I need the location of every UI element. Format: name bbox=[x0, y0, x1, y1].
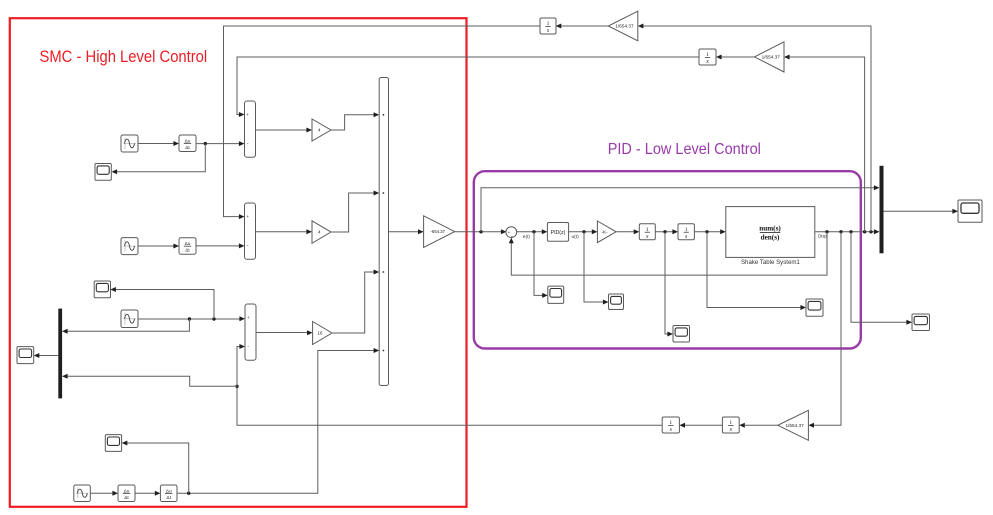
gain Gain4a (4) bbox=[312, 119, 331, 141]
transfer function block Shake Table System1 bbox=[726, 207, 828, 258]
wire FbGainB to IntegratorB bbox=[722, 56, 755, 58]
wire reference branch to MuxOut in1 bbox=[481, 188, 874, 232]
wire MuxOut to ScopeMain bbox=[884, 210, 953, 212]
svg-text:e(t): e(t) bbox=[523, 234, 531, 240]
PID region frame (purple rounded rectangle) bbox=[474, 171, 861, 348]
integrator block IntegratorB (1/s) bbox=[699, 49, 716, 65]
wire feedback C from junction down and left bbox=[814, 232, 841, 425]
wire junction to Scope5 bbox=[851, 232, 907, 322]
integrator block IntegratorC (1/s) bbox=[722, 417, 739, 433]
svg-text:Disp: Disp bbox=[818, 233, 827, 238]
svg-text:1/654.37: 1/654.37 bbox=[762, 54, 781, 59]
wire junction to Mux2 in1 bbox=[67, 319, 189, 331]
wire Derivative2 to Sum2 in2 bbox=[196, 245, 239, 247]
scope ScopeU bbox=[609, 294, 624, 310]
svg-text:u(t): u(t) bbox=[572, 234, 580, 240]
sum junction SumPID bbox=[506, 227, 517, 240]
gain FbGainB (1/654.37) bbox=[755, 42, 785, 72]
scope ScopeE bbox=[548, 286, 564, 303]
wire Mux1 to Gain654 bbox=[389, 231, 419, 233]
sine wave source Sine3 bbox=[121, 310, 138, 328]
wire SumPID to PID (junction) bbox=[517, 231, 542, 233]
svg-text:1/654.37: 1/654.37 bbox=[615, 24, 634, 29]
wire Mux2 to ScopeL bbox=[39, 355, 58, 357]
wire Sine3 to Sum3 in1 (junctions) bbox=[138, 318, 240, 320]
svg-text:den(s): den(s) bbox=[761, 233, 780, 241]
wire FbGainC to IntegratorC bbox=[745, 424, 778, 426]
wire PID feedback to SumPID minus bbox=[511, 232, 827, 275]
svg-text:16: 16 bbox=[317, 331, 323, 336]
integrator block IntegratorA (1/s) bbox=[540, 18, 556, 34]
mux MuxOut (output bus bar) bbox=[880, 166, 884, 254]
wire junction to ScopeV bbox=[665, 232, 668, 334]
sine wave source Sine2 bbox=[121, 238, 138, 255]
wire Gain4b to Mux in2 bbox=[331, 193, 374, 232]
derivative block Derivative2 bbox=[179, 238, 196, 255]
svg-text:Δt: Δt bbox=[124, 495, 129, 501]
wire feedback B from junction up and left bbox=[790, 57, 865, 232]
wire Sum2 to Gain4b bbox=[256, 231, 308, 233]
wire Sine4 to Derivative3 bbox=[90, 492, 112, 494]
wire Gain654 to SumPID (junction at branch to mux) bbox=[455, 231, 502, 233]
mux Mux1 (4-input) bbox=[379, 78, 388, 386]
svg-text:1/654.37: 1/654.37 bbox=[786, 423, 805, 428]
svg-text:Shake Table System1: Shake Table System1 bbox=[741, 259, 800, 266]
wire Plant to MuxOut in2 (junctions) bbox=[815, 231, 874, 233]
svg-text:-K-: -K- bbox=[601, 229, 608, 234]
svg-text:Δt: Δt bbox=[185, 145, 190, 151]
sine wave source Sine4 bbox=[74, 485, 91, 502]
integrator block Integrator1 (1/s) bbox=[639, 224, 655, 240]
scope ScopeMain bbox=[958, 200, 982, 222]
scope ScopeX bbox=[806, 299, 823, 316]
wire PID to GainK (junction) bbox=[569, 231, 592, 233]
svg-text:PID(z): PID(z) bbox=[551, 230, 566, 236]
svg-text:Δt: Δt bbox=[185, 248, 190, 254]
PID controller block PID(z) bbox=[547, 223, 568, 242]
integrator block IntegratorD (1/s) bbox=[662, 417, 679, 433]
wire Sum3 to Gain16 bbox=[256, 332, 308, 334]
wire junction to Scope1 bbox=[117, 144, 206, 172]
sum block Sum1 bbox=[245, 101, 256, 157]
wire Integrator2 to Plant (junction) bbox=[694, 231, 720, 233]
svg-text:PID - Low Level Control: PID - Low Level Control bbox=[608, 141, 761, 158]
wire FbGainA to IntegratorA bbox=[561, 25, 608, 27]
wire Sine1 to Derivative1 bbox=[138, 143, 174, 145]
gain FbGainA (1/654.37) bbox=[608, 11, 638, 41]
wire junction to ScopeU bbox=[584, 232, 603, 302]
scope Scope2 bbox=[94, 281, 110, 298]
integrator block Integrator2 (1/s) bbox=[678, 224, 694, 240]
sine wave source Sine1 bbox=[121, 135, 138, 152]
wire GainK to Integrator1 bbox=[616, 231, 634, 233]
wire Gain4a to Mux in1 bbox=[331, 115, 374, 130]
wire Sum1 to Gain4a bbox=[256, 129, 308, 131]
svg-text:-654.37: -654.37 bbox=[431, 229, 446, 234]
scope Scope3 bbox=[105, 435, 121, 452]
svg-text:SMC - High Level Control: SMC - High Level Control bbox=[40, 47, 208, 66]
wire Integrator1 to Integrator2 (junction) bbox=[656, 231, 673, 233]
wire Derivative1 to Sum1 in2 (junction) bbox=[196, 143, 239, 145]
scope Scope1 bbox=[95, 164, 111, 181]
wire Derivative4 to Mux in4 (junction) bbox=[177, 351, 374, 494]
sum block Sum2 bbox=[245, 203, 256, 259]
svg-text:num(s): num(s) bbox=[759, 224, 781, 232]
wire IntegratorA to Sum2 in1 bbox=[224, 26, 541, 217]
svg-text:+: + bbox=[246, 112, 249, 117]
derivative block Derivative3 bbox=[118, 485, 135, 502]
mux Mux2 (bus bar) bbox=[58, 309, 62, 399]
scope Scope5 bbox=[912, 314, 930, 331]
wire IntegratorC to IntegratorD bbox=[685, 424, 722, 426]
derivative block Derivative1 bbox=[179, 135, 196, 152]
scope ScopeV bbox=[673, 326, 690, 343]
wire junction to Mux2 in2 bbox=[67, 376, 237, 386]
svg-text:Δt: Δt bbox=[166, 495, 171, 501]
SMC region frame (red rectangle) bbox=[10, 18, 467, 507]
gain Gain4b (4) bbox=[312, 221, 331, 244]
wire Gain16 to Mux in3 bbox=[332, 272, 374, 333]
wire junction to Scope2 bbox=[116, 290, 214, 320]
wire IntegratorD left and up (junction) bbox=[237, 386, 662, 425]
wire junction to ScopeE bbox=[534, 232, 543, 296]
wire Sine2 to Derivative2 bbox=[138, 245, 174, 247]
scope ScopeL bbox=[17, 347, 34, 364]
wire junction to Sum3 in2 bbox=[237, 347, 240, 387]
svg-text:+: + bbox=[246, 214, 249, 219]
wire junction to ScopeX bbox=[707, 232, 801, 308]
wire junction to Scope3 bbox=[127, 443, 189, 493]
sum block Sum3 bbox=[245, 304, 256, 360]
wire feedback A from junction up and left bbox=[643, 26, 871, 232]
gain Gain16 (16) bbox=[313, 322, 332, 345]
wire IntegratorB to Sum1 in1 bbox=[237, 57, 699, 115]
svg-text:+: + bbox=[247, 315, 250, 320]
gain GainK (-K-) bbox=[597, 221, 616, 243]
gain Gain654 (-654.37) bbox=[424, 216, 455, 248]
wire Derivative3 to Derivative4 bbox=[135, 492, 155, 494]
derivative block Derivative4 bbox=[160, 485, 177, 502]
gain FbGainC (1/654.37) bbox=[778, 410, 809, 440]
